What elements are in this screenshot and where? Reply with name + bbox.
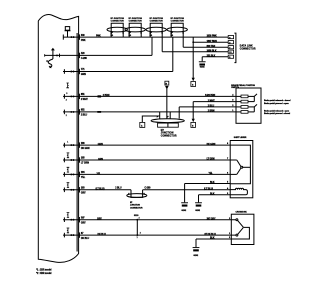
ground symbol G2 [181, 202, 188, 206]
DLC connector face bracket [234, 33, 236, 63]
ground wire from shift lever (y=183.5) [185, 184, 231, 203]
svg-text:DK BLU: DK BLU [81, 238, 90, 240]
DLC wire D from junction connector 3 [162, 37, 228, 52]
svg-text:LT GRN: LT GRN [207, 159, 215, 161]
I/P junction connector 4 oval [167, 27, 187, 32]
I/P junction connector 1 staple [111, 23, 123, 37]
DLC pin box A [228, 36, 233, 39]
svg-text:BLK: BLK [210, 182, 215, 184]
svg-text:GRN: GRN [81, 74, 86, 76]
svg-text:1036 PNK: 1036 PNK [207, 36, 217, 38]
branch wire with terminal box [140, 116, 160, 127]
shift lever switch contacts [230, 160, 250, 174]
svg-text:YEL: YEL [209, 173, 214, 175]
DLC pin box C [228, 46, 233, 49]
svg-text:87 DK BLU: 87 DK BLU [205, 234, 217, 236]
DLC pin box D [228, 50, 233, 53]
splice curl row 7 [67, 153, 70, 158]
DLC pin box B [228, 41, 233, 44]
svg-text:SHIFT LEVER: SHIFT LEVER [234, 137, 247, 139]
svg-text:(LT BLU): (LT BLU) [96, 189, 105, 191]
ground symbol G3 [195, 202, 202, 206]
mid junction connector pin right [169, 112, 171, 119]
shift lever internal top wire and rail [230, 145, 250, 184]
shift lock solenoid coil [230, 188, 247, 195]
cruise ground wire (y=239.0) [196, 239, 231, 247]
svg-text:2 BLU: 2 BLU [81, 115, 88, 117]
svg-text:1: 1 [67, 141, 68, 143]
svg-text:DATA LINK: DATA LINK [240, 44, 253, 47]
wire row 9 to shift solenoid (left of junction connector) [63, 189, 131, 191]
svg-text:C-280: C-280 [81, 58, 88, 60]
brake row 3 wire from mid junction connector [179, 107, 236, 119]
I/P junction connector 1 oval [107, 27, 127, 32]
svg-text:GRY: GRY [81, 222, 86, 224]
svg-text:GRN: GRN [98, 159, 103, 161]
hanging I/P junction connector oval [127, 194, 147, 198]
svg-text:397 GRY: 397 GRY [207, 218, 216, 220]
I/P junction connector 3 staple [150, 23, 162, 37]
DLC pin box E [228, 55, 233, 58]
riser row2 to junction band [151, 37, 153, 55]
brake switch contact pair 1 [236, 94, 257, 103]
svg-text:251 BLK: 251 BLK [207, 55, 216, 57]
shift lever box [230, 141, 253, 198]
I/P junction connector 4 staple [171, 23, 183, 37]
splice link between row 10 and row 11 [136, 219, 138, 236]
terminal pair row 7 [64, 158, 75, 163]
terminal pair row 5 [64, 110, 75, 115]
terminal pair row 1 [63, 35, 75, 40]
wire row 6 to shift lever (y=145.1) [63, 144, 230, 146]
svg-text:2 WHT: 2 WHT [208, 100, 215, 102]
svg-text:CONNECTOR: CONNECTOR [150, 20, 164, 22]
mid I/P junction connector oval [151, 119, 184, 123]
DLC wire C from junction connector 4 [183, 37, 228, 47]
splice curl row 11 [67, 228, 70, 233]
brake pedal position switch box [236, 88, 261, 123]
mid junction connector pin left [159, 112, 161, 119]
off-page drop from brake row 2 [192, 102, 194, 119]
svg-text:YEL: YEL [81, 177, 86, 179]
svg-text:DK BLU: DK BLU [98, 234, 107, 236]
terminal pair row 3 [64, 69, 75, 74]
splice curl row 3 (below wire) [66, 83, 69, 88]
terminal pair row 11 [64, 233, 75, 238]
I/P junction connector 3 oval [146, 27, 166, 32]
inline connector mark on row 5 [97, 111, 101, 113]
svg-text:SWITCH: SWITCH [231, 87, 239, 89]
svg-text:Brake pedal pressed : closed: Brake pedal pressed : closed [264, 112, 291, 115]
I/P junction connector 2 staple [129, 23, 141, 37]
svg-text:Brake pedal released : open: Brake pedal released : open [264, 109, 290, 112]
svg-text:Brake pedal released : closed: Brake pedal released : closed [264, 99, 291, 102]
off-page riser with junction at x=193.2 [192, 37, 194, 78]
ground stub at DLC wire E [201, 57, 203, 62]
svg-text:CRUISE SW.: CRUISE SW. [236, 212, 248, 214]
mid junction connector body [158, 123, 179, 127]
svg-text:CONNECTOR: CONNECTOR [161, 135, 177, 137]
PCM connector face line [76, 33, 78, 252]
terminal pair row 9 [64, 188, 75, 193]
svg-text:1807 BRN: 1807 BRN [207, 41, 218, 43]
wire row 8 to shift lever (y=174.4) [63, 173, 230, 175]
svg-text:CONNECTOR: CONNECTOR [171, 20, 185, 22]
DLC wire B (y=42.2) [193, 41, 228, 43]
svg-text:C-280: C-280 [145, 188, 152, 190]
svg-text:2: 2 [139, 218, 140, 220]
svg-text:GRN: GRN [98, 144, 103, 146]
internal riser cap and box row 1 [65, 27, 71, 37]
svg-text:CONNECTOR: CONNECTOR [111, 20, 125, 22]
brake switch contact pair 2 [236, 104, 257, 113]
svg-text:GRY: GRY [97, 219, 102, 221]
svg-text:CONNECTOR: CONNECTOR [240, 49, 256, 51]
svg-text:1420 BRN: 1420 BRN [205, 94, 216, 97]
wire row 9 to shift solenoid (right of junction connector) [143, 189, 231, 191]
svg-text:2 WHT: 2 WHT [81, 99, 88, 101]
hanging I/P junction connector staple on row 9 [131, 190, 143, 198]
ground wire from solenoid return (y=194.8) [199, 195, 231, 203]
svg-text:3: 3 [140, 233, 141, 235]
wire row 1 serial data (y=37.1) [63, 36, 228, 38]
svg-text:LT GRN: LT GRN [81, 163, 89, 165]
svg-text:2 BRN: 2 BRN [103, 95, 110, 97]
wire row 7 to shift lever (y=160.0) [63, 159, 230, 161]
terminal pair row 4 [64, 94, 75, 99]
DLC wire E from ground [202, 56, 228, 58]
svg-text:*2 : 4DR model: *2 : 4DR model [36, 272, 52, 275]
svg-text:DK GRN: DK GRN [81, 148, 90, 150]
pin marks at PCM connector face [78, 34, 81, 237]
terminal pair row 10 [64, 217, 75, 222]
svg-text:2 BLU: 2 BLU [208, 106, 215, 108]
svg-text:1: 1 [137, 237, 138, 239]
svg-text:*1 : 2DR model: *1 : 2DR model [36, 270, 52, 272]
splice curl row 9 [67, 183, 70, 188]
svg-text:2: 2 [66, 115, 67, 117]
svg-text:2 BLU: 2 BLU [115, 188, 122, 190]
svg-text:JUNCTION: JUNCTION [161, 133, 174, 135]
cruise switch contacts [231, 219, 250, 239]
svg-text:CONNECTOR: CONNECTOR [129, 20, 143, 22]
PCM module box outline (wavy top and bottom) [38, 14, 78, 262]
incoming wire arrow with reference box [165, 81, 169, 118]
internal driver transistor symbol row 2 [44, 48, 60, 69]
svg-text:2 BRN: 2 BRN [208, 111, 215, 113]
svg-text:JUNCTION: JUNCTION [130, 205, 140, 207]
svg-text:Brake pedal pressed : open: Brake pedal pressed : open [264, 102, 289, 105]
svg-text:YEL: YEL [97, 173, 102, 175]
off-page reference arrow and box (top) [191, 78, 196, 87]
svg-text:800 TAN: 800 TAN [207, 45, 216, 48]
svg-text:BLK: BLK [210, 194, 215, 196]
svg-text:1056 BLK: 1056 BLK [207, 50, 217, 52]
ground symbol at DLC [199, 61, 206, 65]
wire row 3 (y=71.5) [63, 71, 173, 73]
terminal pair row 6 [64, 143, 75, 148]
svg-text:F: F [128, 193, 129, 195]
svg-text:PNK: PNK [96, 36, 101, 38]
splice curl row 8 [67, 167, 70, 172]
svg-text:(LT BLU): (LT BLU) [204, 189, 213, 191]
splice curl row 10 [67, 213, 70, 218]
svg-text:GRY: GRY [81, 193, 86, 195]
riser row3 to junction band [172, 37, 174, 71]
svg-text:BLK: BLK [210, 238, 215, 240]
wire row 2 (y=55.4) [45, 54, 152, 56]
svg-text:CONNECTOR: CONNECTOR [130, 207, 143, 209]
cruise switch box [231, 214, 254, 244]
inline connector mark on row 4 [98, 95, 102, 97]
svg-text:DK GRN: DK GRN [207, 144, 216, 146]
wire row 11 to cruise switch (y=235.1) [63, 234, 236, 236]
wire row 5 to junction connector and brake switch (y=111.9) [63, 111, 236, 113]
svg-text:PNK: PNK [81, 40, 86, 42]
brake row 2 wire (y=101.6) [193, 101, 236, 103]
svg-text:2: 2 [66, 100, 67, 102]
wire row 4 to brake switch (y=96.4) [63, 95, 236, 97]
off-page reference arrow and box (lower) [191, 119, 196, 128]
svg-text:5: 5 [66, 93, 67, 95]
I/P junction connector 2 oval [125, 27, 145, 32]
terminal pair row 8 [64, 172, 75, 177]
wire row 10 to cruise switch (y=219.7) [63, 219, 236, 221]
ground symbol G4 [193, 247, 200, 251]
